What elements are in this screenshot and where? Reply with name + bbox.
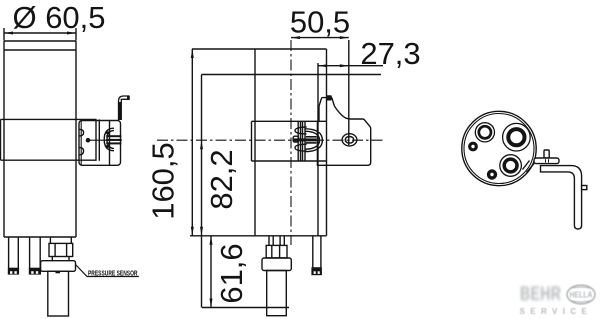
top view port C	[500, 155, 522, 177]
top view bracket tab	[544, 150, 549, 158]
bolt shaft dot front view	[86, 138, 91, 143]
top view port D	[487, 169, 497, 179]
center axis bolt horizontal	[157, 139, 385, 141]
top view port B	[503, 123, 531, 151]
dimension line D60,5	[4, 28, 76, 41]
receiver drier body front view	[4, 41, 76, 237]
sensor port stub front view	[50, 237, 71, 243]
pipe 1 front view	[8, 237, 19, 275]
dimension 160,5	[191, 49, 194, 236]
pipe 2 front view	[29, 237, 41, 275]
clamp bolt knob front view	[104, 128, 121, 151]
top view port E	[468, 142, 478, 152]
bracket hole side view	[342, 134, 357, 146]
dimension line 27,3	[318, 64, 383, 67]
svg-text:50,5: 50,5	[290, 5, 350, 40]
mounting bracket side view	[317, 95, 370, 165]
svg-text:160,5: 160,5	[146, 142, 181, 220]
mounting hook front view	[119, 95, 130, 119]
sensor neck front view	[52, 257, 69, 261]
svg-text:HELLA: HELLA	[570, 290, 593, 300]
sensor flange front view	[41, 261, 76, 272]
svg-text:BEHR: BEHR	[520, 283, 561, 305]
logo HELLA oval	[567, 285, 595, 304]
top view bracket base	[534, 158, 559, 164]
extension line pipe axis	[317, 63, 319, 236]
svg-text:PRESSURE SENSOR: PRESSURE SENSOR	[88, 268, 138, 277]
dimension 61,6	[202, 236, 289, 308]
top view arm stud	[582, 186, 587, 190]
sensor stub side view	[269, 236, 284, 246]
center axis side view vertical	[290, 40, 292, 245]
drier body side view	[190, 49, 381, 236]
sensor hex nut front view	[49, 243, 73, 256]
svg-text:82,2: 82,2	[204, 149, 239, 209]
svg-text:SERVICE: SERVICE	[520, 307, 593, 316]
top view bracket foot lines	[523, 161, 535, 173]
top view main circle	[462, 111, 536, 185]
bracket plate front view	[79, 119, 121, 165]
bolt axis line front view	[90, 139, 122, 141]
svg-text:61,6: 61,6	[214, 243, 249, 303]
pipe side view	[311, 236, 322, 275]
strap hinge loops front view	[79, 129, 84, 155]
dimension 82,2	[200, 75, 203, 308]
clamp band side view	[252, 121, 327, 161]
top view bracket arm	[541, 166, 582, 229]
pressure sensor body side view	[267, 271, 287, 316]
clamp bolt knob side view	[293, 129, 322, 152]
top view port A	[475, 123, 494, 142]
clamp nut side view	[293, 136, 298, 142]
svg-text:Ø 60,5: Ø 60,5	[12, 0, 105, 35]
extension line bracket hole axis	[348, 40, 350, 145]
sensor flange side view	[262, 258, 291, 271]
pressure sensor leader line	[76, 265, 139, 277]
clamp band front view	[1, 119, 97, 160]
strap hinge loops side view	[295, 127, 307, 151]
dimension line 50,5	[291, 36, 349, 39]
logo BEHR	[520, 283, 561, 305]
pressure sensor body front view	[48, 271, 69, 316]
sensor hex nut side view	[266, 245, 287, 258]
